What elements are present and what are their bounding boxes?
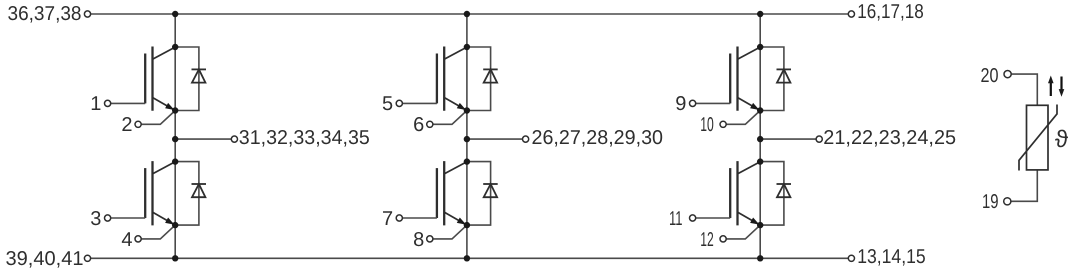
svg-text:20: 20 bbox=[981, 65, 999, 87]
svg-text:31,32,33,34,35: 31,32,33,34,35 bbox=[239, 127, 370, 149]
svg-text:21,22,23,24,25: 21,22,23,24,25 bbox=[823, 127, 956, 149]
svg-text:4: 4 bbox=[121, 229, 132, 251]
svg-text:26,27,28,29,30: 26,27,28,29,30 bbox=[532, 127, 664, 149]
svg-text:5: 5 bbox=[382, 93, 393, 115]
svg-text:2: 2 bbox=[121, 114, 132, 136]
svg-text:3: 3 bbox=[90, 208, 101, 230]
svg-text:13,14,15: 13,14,15 bbox=[857, 246, 926, 268]
svg-text:39,40,41: 39,40,41 bbox=[6, 248, 84, 270]
svg-text:1: 1 bbox=[90, 93, 101, 115]
svg-text:6: 6 bbox=[413, 114, 424, 136]
svg-text:36,37,38: 36,37,38 bbox=[8, 3, 82, 25]
svg-text:16,17,18: 16,17,18 bbox=[857, 1, 924, 23]
svg-text:10: 10 bbox=[700, 114, 714, 136]
svg-text:8: 8 bbox=[413, 229, 424, 251]
svg-text:9: 9 bbox=[675, 93, 686, 115]
svg-text:19: 19 bbox=[982, 191, 999, 213]
svg-text:7: 7 bbox=[382, 208, 393, 230]
svg-text:12: 12 bbox=[700, 229, 714, 251]
svg-text:ϑ: ϑ bbox=[1055, 126, 1068, 153]
svg-text:11: 11 bbox=[669, 208, 683, 230]
